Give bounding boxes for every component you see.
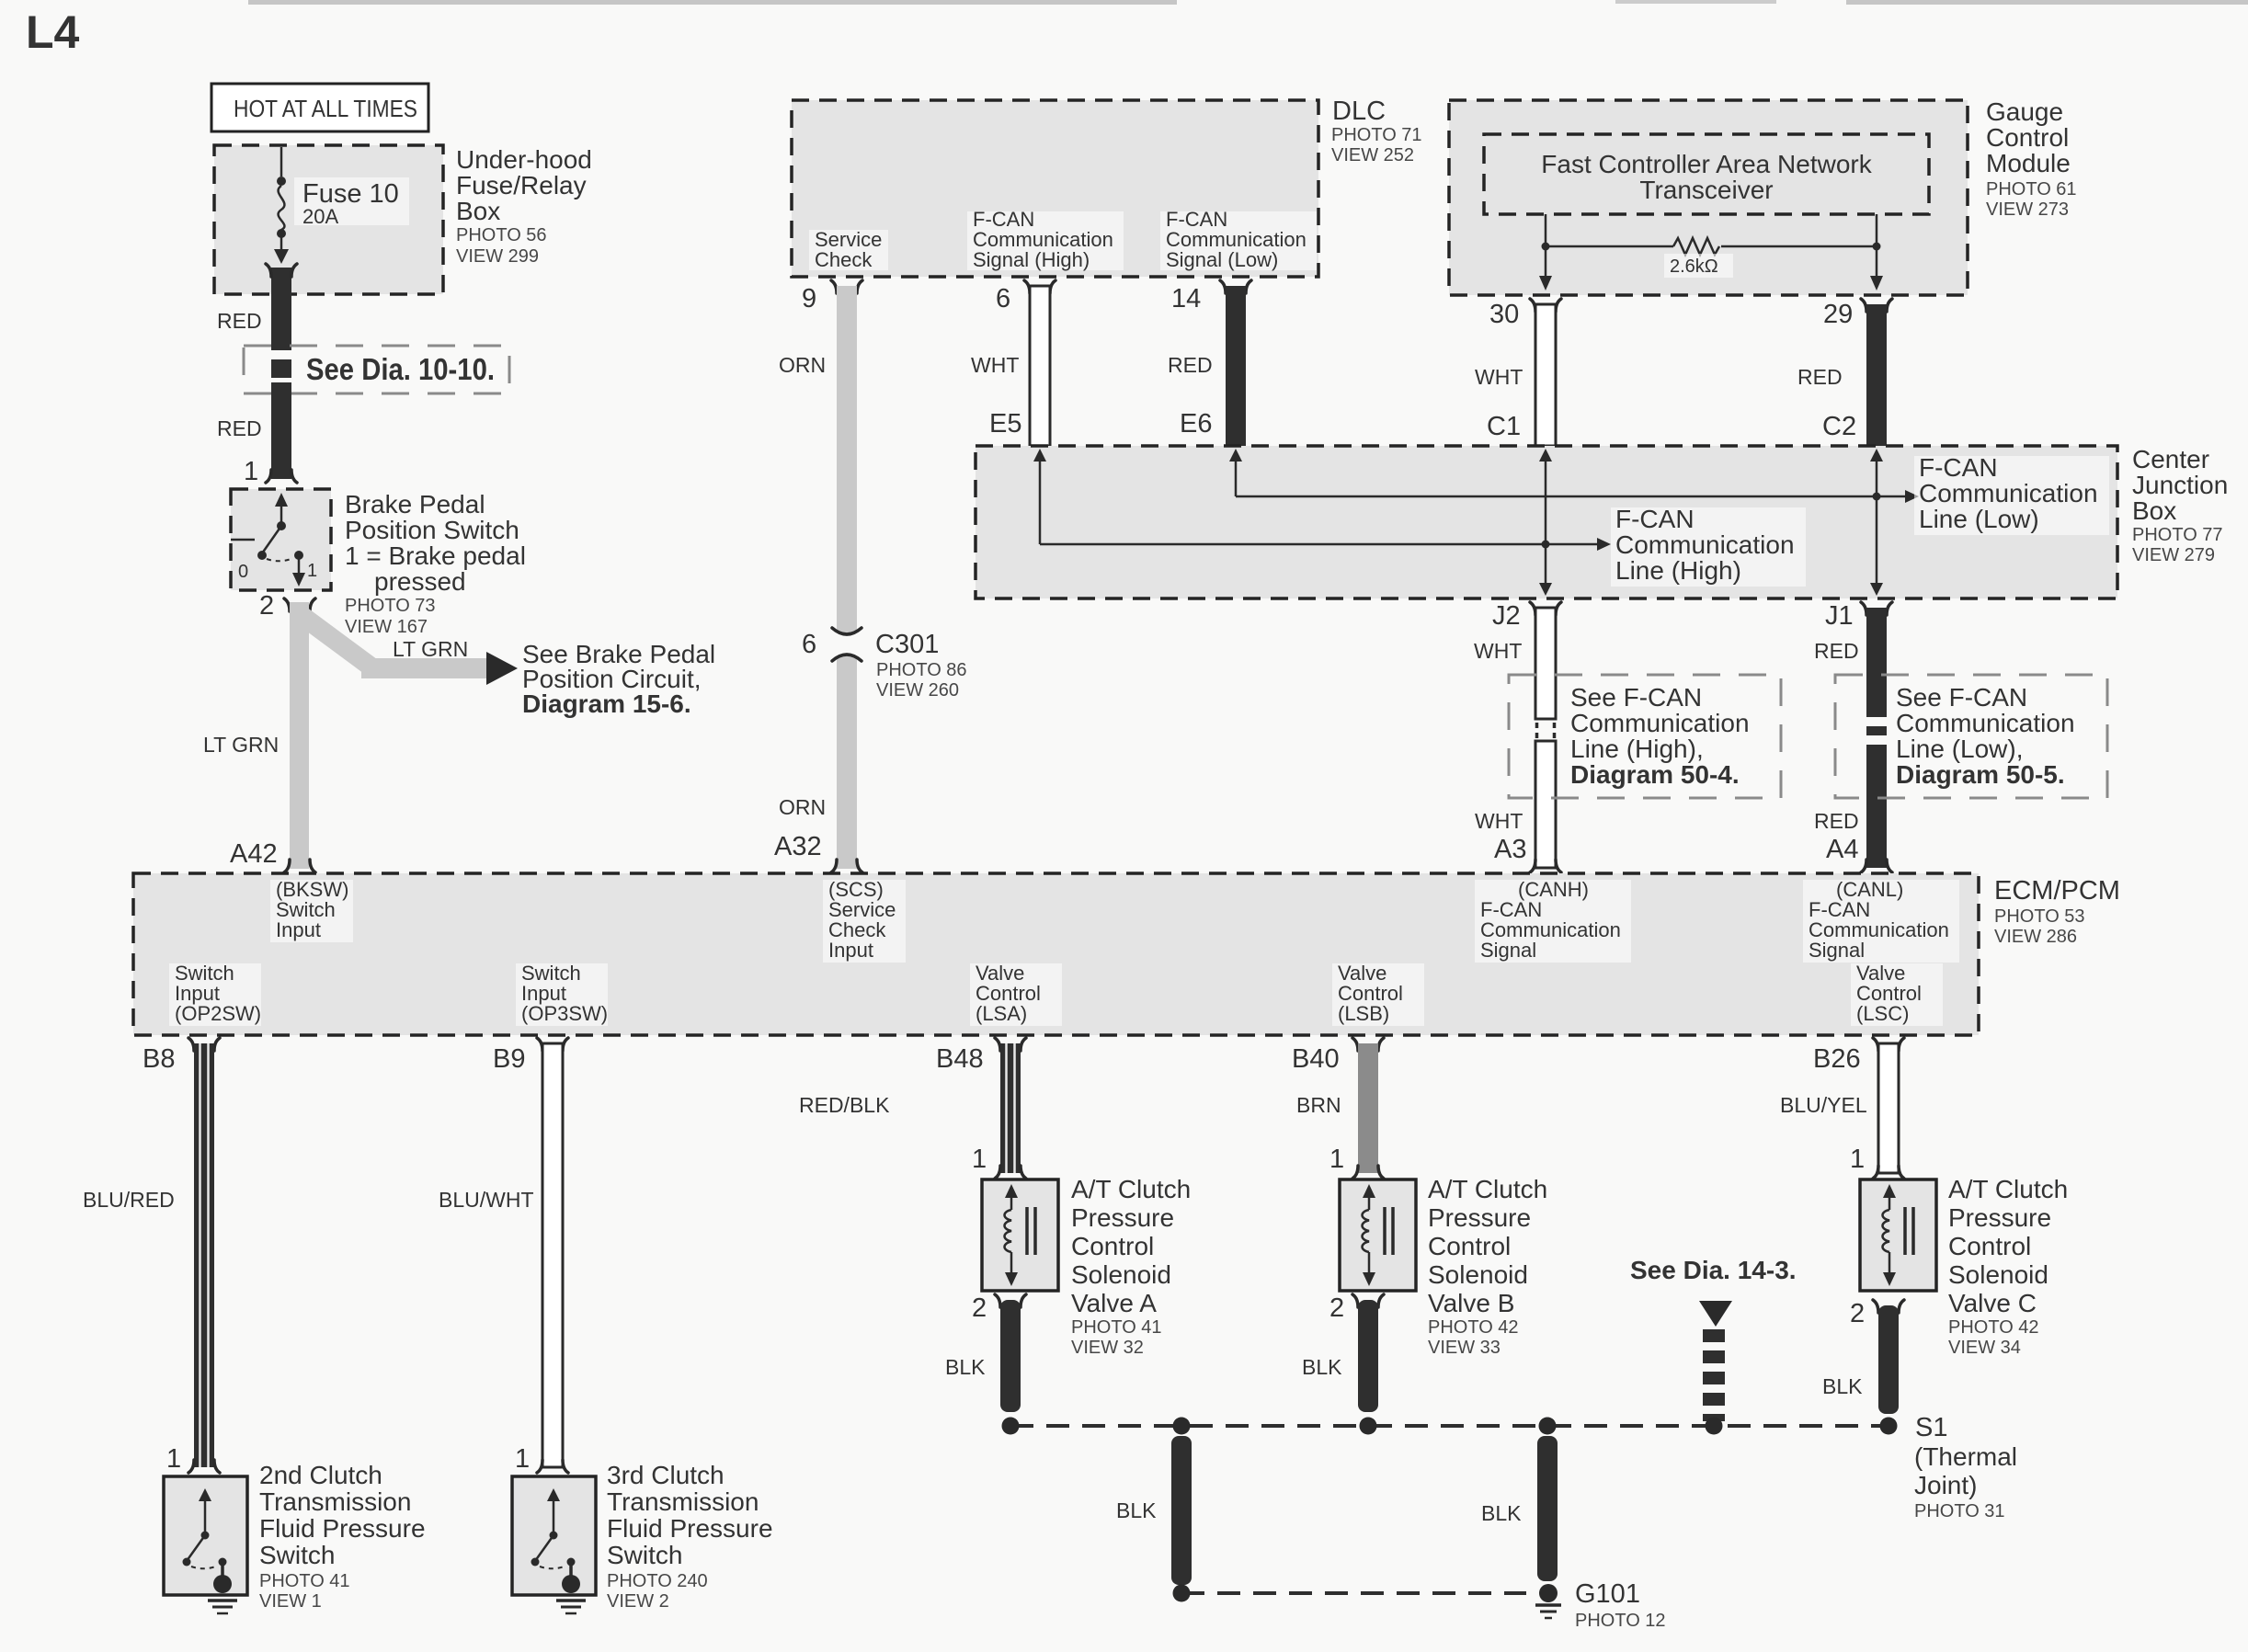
- svg-text:29: 29: [1823, 300, 1853, 329]
- svg-text:PHOTO 53: PHOTO 53: [1994, 906, 2085, 927]
- svg-text:BLK: BLK: [945, 1355, 986, 1379]
- svg-text:VIEW 2: VIEW 2: [607, 1591, 669, 1612]
- svg-text:BRN: BRN: [1296, 1093, 1341, 1117]
- svg-text:Signal (Low): Signal (Low): [1166, 248, 1278, 271]
- svg-text:Transmission: Transmission: [607, 1487, 759, 1516]
- svg-text:LT GRN: LT GRN: [203, 733, 279, 757]
- svg-text:1: 1: [1850, 1145, 1865, 1174]
- svg-text:See F-CAN: See F-CAN: [1896, 683, 2027, 712]
- svg-text:PHOTO 73: PHOTO 73: [345, 596, 436, 616]
- svg-text:WHT: WHT: [1475, 365, 1523, 389]
- svg-text:BLK: BLK: [1822, 1374, 1863, 1398]
- svg-text:L4: L4: [26, 6, 80, 58]
- svg-text:PHOTO 41: PHOTO 41: [1071, 1317, 1162, 1338]
- svg-text:Diagram 50-5.: Diagram 50-5.: [1896, 760, 2065, 789]
- svg-text:VIEW 260: VIEW 260: [876, 680, 959, 701]
- svg-text:(Thermal: (Thermal: [1914, 1442, 2017, 1471]
- svg-text:Control: Control: [1948, 1232, 2031, 1260]
- svg-text:Diagram 15-6.: Diagram 15-6.: [522, 689, 691, 718]
- svg-text:A4: A4: [1826, 835, 1858, 864]
- svg-text:LT GRN: LT GRN: [393, 637, 468, 661]
- svg-text:Input: Input: [828, 939, 873, 962]
- svg-text:9: 9: [802, 284, 816, 313]
- svg-text:RED: RED: [217, 416, 262, 440]
- svg-text:Communication: Communication: [1896, 709, 2075, 737]
- svg-text:Fluid Pressure: Fluid Pressure: [607, 1514, 773, 1543]
- svg-text:Line (Low): Line (Low): [1919, 505, 2039, 533]
- svg-text:VIEW 286: VIEW 286: [1994, 927, 2077, 947]
- svg-text:See Dia. 10-10.: See Dia. 10-10.: [306, 352, 495, 386]
- svg-text:VIEW 299: VIEW 299: [456, 246, 539, 267]
- svg-text:B40: B40: [1292, 1044, 1340, 1074]
- svg-text:Signal (High): Signal (High): [973, 248, 1090, 271]
- svg-text:PHOTO 71: PHOTO 71: [1331, 125, 1422, 145]
- svg-text:RED: RED: [1797, 365, 1843, 389]
- svg-text:2: 2: [1329, 1293, 1344, 1323]
- svg-text:Communication: Communication: [1919, 479, 2098, 507]
- svg-text:Junction: Junction: [2132, 471, 2228, 499]
- svg-text:BLK: BLK: [1116, 1498, 1157, 1522]
- svg-text:6: 6: [996, 284, 1010, 313]
- svg-text:Fluid Pressure: Fluid Pressure: [259, 1514, 426, 1543]
- svg-text:(OP2SW): (OP2SW): [175, 1002, 261, 1025]
- svg-text:Solenoid: Solenoid: [1071, 1260, 1171, 1289]
- svg-text:1: 1: [307, 561, 317, 581]
- svg-text:(LSB): (LSB): [1338, 1002, 1389, 1025]
- svg-text:(LSA): (LSA): [976, 1002, 1027, 1025]
- svg-text:See Dia. 14-3.: See Dia. 14-3.: [1630, 1256, 1797, 1284]
- svg-text:A/T Clutch: A/T Clutch: [1071, 1175, 1191, 1203]
- svg-text:Communication: Communication: [1615, 530, 1795, 559]
- svg-text:1: 1: [515, 1444, 530, 1474]
- svg-text:C301: C301: [875, 630, 939, 659]
- svg-text:Communication: Communication: [1570, 709, 1750, 737]
- svg-text:Transmission: Transmission: [259, 1487, 411, 1516]
- svg-text:Valve C: Valve C: [1948, 1289, 2037, 1317]
- svg-text:Control: Control: [1428, 1232, 1511, 1260]
- svg-text:Brake Pedal: Brake Pedal: [345, 490, 485, 518]
- svg-text:RED/BLK: RED/BLK: [799, 1093, 890, 1117]
- svg-text:PHOTO 42: PHOTO 42: [1948, 1317, 2039, 1338]
- svg-text:1: 1: [972, 1145, 987, 1174]
- svg-text:C2: C2: [1822, 412, 1856, 441]
- svg-text:14: 14: [1171, 284, 1201, 313]
- svg-text:WHT: WHT: [1474, 639, 1522, 663]
- svg-text:HOT AT ALL TIMES: HOT AT ALL TIMES: [234, 95, 417, 122]
- svg-text:PHOTO 240: PHOTO 240: [607, 1571, 708, 1591]
- svg-text:(OP3SW): (OP3SW): [521, 1002, 608, 1025]
- svg-text:G101: G101: [1575, 1579, 1640, 1609]
- svg-text:PHOTO 56: PHOTO 56: [456, 225, 547, 245]
- svg-text:F-CAN: F-CAN: [1615, 505, 1695, 533]
- svg-text:2: 2: [259, 591, 274, 621]
- svg-text:PHOTO 77: PHOTO 77: [2132, 525, 2223, 545]
- svg-text:Pressure: Pressure: [1948, 1203, 2051, 1232]
- svg-text:Transceiver: Transceiver: [1639, 176, 1773, 204]
- svg-text:PHOTO 12: PHOTO 12: [1575, 1611, 1666, 1631]
- svg-text:Box: Box: [2132, 496, 2176, 525]
- svg-text:BLK: BLK: [1302, 1355, 1342, 1379]
- svg-text:BLU/WHT: BLU/WHT: [439, 1188, 534, 1212]
- svg-text:1: 1: [244, 457, 258, 486]
- svg-text:pressed: pressed: [374, 567, 466, 596]
- svg-text:PHOTO 86: PHOTO 86: [876, 660, 967, 680]
- svg-text:(LSC): (LSC): [1856, 1002, 1909, 1025]
- svg-text:Line (Low),: Line (Low),: [1896, 735, 2024, 763]
- svg-text:WHT: WHT: [971, 353, 1019, 377]
- svg-text:2.6kΩ: 2.6kΩ: [1670, 256, 1718, 277]
- svg-text:Control: Control: [1986, 123, 2069, 152]
- svg-text:J2: J2: [1492, 601, 1521, 631]
- svg-text:20A: 20A: [302, 205, 338, 228]
- svg-text:BLU/YEL: BLU/YEL: [1780, 1093, 1867, 1117]
- svg-text:Diagram 50-4.: Diagram 50-4.: [1570, 760, 1740, 789]
- svg-text:B9: B9: [493, 1044, 525, 1074]
- svg-text:ORN: ORN: [779, 353, 826, 377]
- svg-text:J1: J1: [1825, 601, 1854, 631]
- svg-text:Pressure: Pressure: [1071, 1203, 1174, 1232]
- svg-text:See F-CAN: See F-CAN: [1570, 683, 1702, 712]
- svg-text:Input: Input: [276, 918, 321, 941]
- svg-text:2: 2: [972, 1293, 987, 1323]
- svg-text:Center: Center: [2132, 445, 2209, 473]
- svg-text:Solenoid: Solenoid: [1948, 1260, 2048, 1289]
- svg-text:Position Switch: Position Switch: [345, 516, 519, 544]
- svg-text:Fuse/Relay: Fuse/Relay: [456, 171, 587, 199]
- svg-text:Module: Module: [1986, 149, 2071, 177]
- svg-text:VIEW 33: VIEW 33: [1428, 1338, 1501, 1358]
- svg-text:1: 1: [1329, 1145, 1344, 1174]
- svg-text:30: 30: [1489, 300, 1519, 329]
- svg-text:E5: E5: [989, 409, 1021, 439]
- svg-text:PHOTO 31: PHOTO 31: [1914, 1501, 2005, 1521]
- svg-text:Switch: Switch: [607, 1541, 682, 1569]
- svg-text:DLC: DLC: [1332, 97, 1386, 126]
- svg-text:Check: Check: [815, 248, 873, 271]
- svg-text:2nd Clutch: 2nd Clutch: [259, 1461, 382, 1489]
- svg-text:1 = Brake pedal: 1 = Brake pedal: [345, 541, 526, 570]
- svg-text:Pressure: Pressure: [1428, 1203, 1531, 1232]
- svg-text:RED: RED: [1168, 353, 1213, 377]
- svg-text:ORN: ORN: [779, 795, 826, 819]
- svg-text:Gauge: Gauge: [1986, 97, 2063, 126]
- svg-text:B48: B48: [936, 1044, 984, 1074]
- svg-text:RED: RED: [1814, 809, 1859, 833]
- svg-text:VIEW 279: VIEW 279: [2132, 545, 2215, 565]
- svg-text:S1: S1: [1915, 1413, 1947, 1442]
- svg-text:3rd Clutch: 3rd Clutch: [607, 1461, 725, 1489]
- svg-text:A42: A42: [230, 839, 278, 869]
- svg-text:VIEW 167: VIEW 167: [345, 617, 428, 637]
- svg-text:Switch: Switch: [259, 1541, 335, 1569]
- svg-text:VIEW 32: VIEW 32: [1071, 1338, 1144, 1358]
- svg-text:ECM/PCM: ECM/PCM: [1994, 876, 2120, 906]
- svg-text:A/T Clutch: A/T Clutch: [1948, 1175, 2068, 1203]
- svg-text:VIEW 252: VIEW 252: [1331, 145, 1414, 165]
- svg-text:Fast Controller Area Network: Fast Controller Area Network: [1541, 150, 1872, 178]
- svg-text:Joint): Joint): [1914, 1471, 1977, 1499]
- svg-text:Under-hood: Under-hood: [456, 145, 592, 174]
- svg-text:PHOTO 61: PHOTO 61: [1986, 179, 2077, 199]
- svg-text:Line (High),: Line (High),: [1570, 735, 1704, 763]
- svg-text:F-CAN: F-CAN: [1919, 453, 1998, 482]
- svg-text:1: 1: [166, 1444, 181, 1474]
- svg-text:Line (High): Line (High): [1615, 556, 1741, 585]
- svg-text:RED: RED: [217, 309, 262, 333]
- svg-text:Valve B: Valve B: [1428, 1289, 1514, 1317]
- svg-text:E6: E6: [1180, 409, 1212, 439]
- svg-text:2: 2: [1850, 1299, 1865, 1328]
- svg-text:0: 0: [238, 562, 248, 582]
- svg-text:PHOTO 41: PHOTO 41: [259, 1571, 350, 1591]
- svg-text:C1: C1: [1487, 412, 1521, 441]
- svg-text:B8: B8: [143, 1044, 175, 1074]
- svg-text:VIEW 34: VIEW 34: [1948, 1338, 2021, 1358]
- svg-text:PHOTO 42: PHOTO 42: [1428, 1317, 1519, 1338]
- svg-text:Signal: Signal: [1480, 939, 1536, 962]
- svg-text:6: 6: [802, 630, 816, 659]
- svg-text:BLU/RED: BLU/RED: [83, 1188, 175, 1212]
- svg-text:WHT: WHT: [1475, 809, 1523, 833]
- svg-text:RED: RED: [1814, 639, 1859, 663]
- svg-text:VIEW 273: VIEW 273: [1986, 199, 2069, 220]
- svg-text:VIEW 1: VIEW 1: [259, 1591, 322, 1612]
- svg-text:Signal: Signal: [1809, 939, 1865, 962]
- svg-text:Control: Control: [1071, 1232, 1154, 1260]
- svg-text:Box: Box: [456, 197, 500, 225]
- svg-text:Valve A: Valve A: [1071, 1289, 1157, 1317]
- svg-text:A32: A32: [774, 832, 822, 861]
- svg-text:A3: A3: [1494, 835, 1526, 864]
- svg-text:A/T Clutch: A/T Clutch: [1428, 1175, 1547, 1203]
- svg-text:BLK: BLK: [1481, 1501, 1522, 1525]
- svg-text:Solenoid: Solenoid: [1428, 1260, 1528, 1289]
- svg-text:B26: B26: [1813, 1044, 1861, 1074]
